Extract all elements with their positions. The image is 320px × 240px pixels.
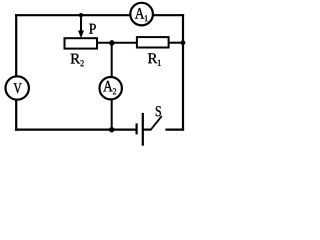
wire: bottom side, left corner to battery — [15, 129, 137, 131]
wire: left side of loop (voltmeter branch) — [15, 14, 17, 131]
ammeter A1: letter A — [135, 8, 144, 19]
potentiometer wiper arrow P: stem — [80, 15, 82, 32]
wire: right side of loop — [182, 14, 184, 131]
wire: middle branch, R1 right end to right side — [169, 42, 183, 44]
wire: middle branch, R2 right end to R1 left end — [97, 42, 137, 44]
label R1: letter R — [148, 53, 158, 63]
label R2: letter R — [71, 54, 81, 64]
resistor R2 (rheostat body) — [65, 38, 98, 48]
voltmeter V: letter V — [14, 83, 22, 93]
label P — [89, 24, 96, 34]
junction dot: A2 branch on bottom wire — [109, 127, 114, 132]
ammeter A2: body circle — [100, 77, 122, 99]
label S — [156, 106, 161, 116]
wire: top side of loop — [15, 14, 184, 16]
junction dot: R2/R1/A2 node — [109, 40, 114, 45]
label R1: subscript 1 — [158, 60, 161, 66]
ammeter A2: subscript 2 — [113, 88, 116, 94]
potentiometer wiper arrow P: head — [78, 31, 83, 38]
wire: bottom side, battery to switch pivot — [143, 129, 152, 131]
voltmeter V: body circle — [6, 76, 29, 99]
ammeter A1: subscript 1 — [145, 15, 148, 21]
wire: ammeter A2 vertical branch — [111, 43, 113, 130]
wire: bottom side, switch contact to right corner — [165, 129, 184, 131]
switch S: lever — [151, 116, 162, 129]
junction dot: R1 wire on right side — [181, 40, 186, 45]
battery: short plate (left) — [136, 123, 138, 134]
battery: long plate (right) — [142, 113, 144, 146]
ammeter A1: body circle — [130, 3, 153, 26]
ammeter A2: letter A — [103, 81, 112, 92]
resistor R1 (body) — [137, 37, 169, 47]
junction dot: P arrow on top wire — [79, 13, 83, 17]
label R2: subscript 2 — [81, 60, 84, 66]
